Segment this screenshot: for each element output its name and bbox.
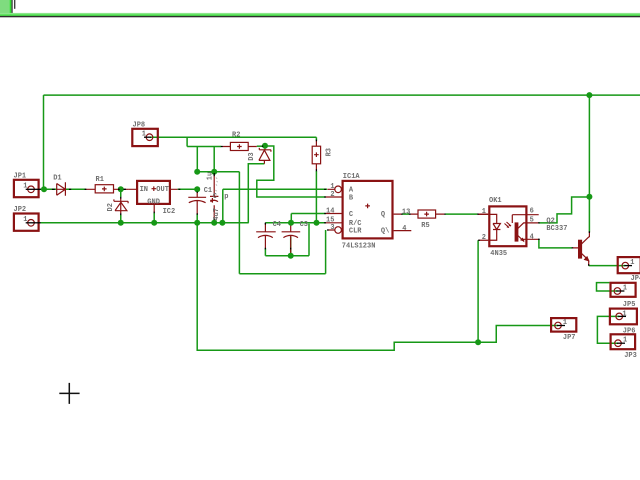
svg-text:R5: R5 [421, 222, 429, 230]
wire long loop to optocoupler side [197, 223, 478, 350]
svg-text:1u: 1u [207, 172, 215, 180]
junction OUT/C2 [194, 186, 200, 192]
svg-text:D3: D3 [248, 152, 256, 160]
OK1 phototransistor [515, 223, 518, 241]
wire C4 bottom rail [265, 224, 309, 256]
svg-text:JP1: JP1 [14, 172, 27, 180]
junction C1 top [211, 169, 217, 175]
junction R3/pin15 [314, 220, 320, 226]
svg-text:13: 13 [402, 209, 410, 217]
junction R1/IN/D2 [118, 186, 124, 192]
smashed text frame dashes [216, 178, 218, 192]
svg-text:4u7: 4u7 [213, 208, 221, 221]
junction collector node [586, 194, 592, 200]
svg-text:IN: IN [140, 186, 148, 194]
wire OK1 pin2 down to junction [477, 240, 479, 342]
capacitor C2 [188, 191, 206, 214]
wire R2 right to D3 node [257, 145, 263, 147]
svg-text:BC337: BC337 [546, 225, 567, 233]
pin line JP3 [617, 342, 625, 344]
svg-text:74LS123N: 74LS123N [342, 242, 376, 250]
svg-text:4: 4 [402, 225, 406, 233]
regulator IC2 box [137, 181, 170, 204]
monostable IC1A box [343, 181, 393, 239]
pin line JP8 [144, 136, 151, 138]
connector JP6 box [610, 309, 637, 325]
connector JP1 box [14, 180, 39, 197]
IC1A pin3 bubble [335, 227, 342, 234]
svg-text:R2: R2 [232, 132, 240, 140]
mouse crosshair [59, 383, 79, 404]
svg-text:C: C [213, 193, 217, 201]
OK1 photo arrows [505, 222, 512, 228]
svg-text:5: 5 [530, 217, 534, 225]
wire Q output to R5 [402, 213, 409, 215]
pin tick C4 top [264, 223, 266, 225]
wire Q2 emitter to JP4 [589, 265, 626, 267]
toolbar separator band [0, 13, 640, 15]
wire R5 to OK1 pin1 [445, 213, 477, 215]
resistor R3 [312, 146, 320, 164]
svg-text:6: 6 [530, 208, 534, 216]
IC1A pin stubs left [326, 189, 343, 230]
JP5 pin ring [614, 288, 621, 295]
pin ticks D2 [120, 197, 122, 215]
JP2 pin ring [28, 220, 35, 227]
wire JP8 branch down to R2 row [187, 137, 221, 146]
svg-text:4N35: 4N35 [490, 250, 507, 258]
wire riser to C2 top [196, 147, 198, 172]
capacitor C1 [210, 174, 218, 220]
IC1A origin cross [365, 204, 370, 209]
pin line JP7 [557, 325, 565, 327]
JP8 pin ring [146, 134, 153, 141]
connector JP3 box [611, 334, 636, 349]
svg-text:1: 1 [623, 284, 627, 292]
connector JP5 box [611, 283, 636, 297]
svg-text:C4: C4 [273, 221, 281, 229]
junction IC2 GND [151, 220, 157, 226]
pin tick D1 right [69, 188, 71, 190]
wire C2/C1 tops cross link [197, 171, 239, 173]
wire JP1 to D1 [40, 188, 57, 190]
diode D1 [57, 182, 66, 196]
junction C3 top/pin14 [288, 220, 294, 226]
pin ticks caps bottom [265, 248, 290, 250]
svg-text:2: 2 [330, 191, 334, 199]
svg-text:JP3: JP3 [624, 352, 637, 360]
svg-text:JP4: JP4 [631, 275, 640, 283]
OK1 pin stubs [478, 214, 538, 240]
pin ticks R5 row [401, 213, 479, 215]
svg-text:JP2: JP2 [14, 206, 27, 214]
wire ground rail from JP2 [41, 222, 249, 224]
pin tick C1 top [213, 173, 215, 176]
connector JP2 box [14, 214, 39, 231]
pin tick C2 top [196, 192, 198, 194]
wire D3 node to pin B riser [257, 146, 326, 197]
svg-text:1: 1 [623, 337, 627, 345]
junction C1 ground [211, 220, 217, 226]
pin tick D1/R1 row [85, 188, 181, 190]
pin ticks C2/C1 bottom [197, 213, 214, 220]
svg-text:C3: C3 [300, 221, 308, 229]
resistor R5 [418, 210, 436, 218]
svg-text:1: 1 [563, 319, 567, 327]
pin ticks IC2 [153, 212, 155, 214]
pin ticks R2 [221, 145, 263, 147]
svg-text:1: 1 [622, 310, 626, 318]
pin ticks IC1A left [324, 189, 329, 230]
svg-text:JP6: JP6 [623, 328, 636, 336]
wire C1 bottom stub [213, 220, 215, 223]
wire D1 to R1 [65, 188, 85, 190]
wire VCC top rail [44, 94, 640, 96]
wire JP6 to JP3 [597, 316, 619, 343]
connector JP7 box [551, 318, 576, 332]
capacitor C4 [256, 223, 276, 249]
JP1 pin ring [28, 186, 35, 193]
pin line JP4 [624, 265, 632, 267]
svg-text:OUT: OUT [156, 186, 169, 194]
svg-text:Q: Q [381, 211, 385, 219]
pin ticks OK1 [478, 223, 540, 240]
zener diode D2 [114, 198, 128, 213]
wire IC2 OUT to C2 node [178, 188, 198, 190]
svg-text:1: 1 [630, 259, 634, 267]
svg-text:1: 1 [142, 131, 146, 139]
connector JP4 box [618, 257, 640, 273]
svg-text:C1: C1 [204, 187, 212, 195]
svg-text:p: p [224, 193, 228, 201]
svg-text:JP5: JP5 [623, 301, 636, 309]
wire junction to JP7 [478, 326, 558, 343]
IC2 pin stubs [129, 189, 178, 212]
wire D3 anode to ground riser [248, 164, 264, 223]
svg-text:14: 14 [326, 207, 334, 215]
pin line JP5 [616, 290, 624, 292]
wire OK1 pin4 to Q2 base [539, 239, 572, 248]
resistor R2 [230, 142, 248, 150]
junction JP1/D1 [41, 186, 47, 192]
wire IC2 GND stub [153, 213, 155, 223]
transistor Q2 BC337 [579, 240, 582, 258]
wire top rail down to collector node [588, 95, 590, 232]
junction C2 ground [194, 220, 200, 226]
pin line JP6 [618, 315, 626, 317]
svg-text:C: C [349, 211, 353, 219]
pin ticks Q2 [572, 231, 590, 265]
wire C2 vertical segments [196, 189, 198, 223]
svg-text:IC2: IC2 [163, 208, 176, 216]
wire C4/C3 tops to pin15 [265, 222, 325, 224]
connector JP8 box [132, 129, 158, 146]
svg-text:1: 1 [482, 208, 486, 216]
wire OK1 pin5 step up to collector node [539, 197, 590, 223]
wire IC1A pin1 to ground riser [223, 189, 327, 223]
pin tick D1 left [52, 188, 55, 190]
pin ticks R3 [315, 140, 317, 172]
svg-text:3: 3 [330, 224, 334, 232]
IC1A pin1 bubble [335, 186, 342, 193]
svg-text:Q\: Q\ [381, 227, 389, 235]
svg-text:OK1: OK1 [489, 197, 502, 205]
svg-text:4: 4 [530, 234, 534, 242]
OK1 internal LED [488, 214, 500, 240]
svg-text:JP7: JP7 [563, 334, 576, 342]
svg-text:JP8: JP8 [133, 121, 146, 129]
wire left vertical from top rail to JP1 node [43, 95, 45, 189]
svg-text:GND: GND [147, 199, 160, 207]
svg-text:D1: D1 [53, 175, 61, 183]
svg-text:1: 1 [23, 216, 27, 224]
JP4 pin ring [622, 262, 629, 269]
IC1A pin stubs right [394, 214, 412, 231]
junction R2/D3 [262, 143, 268, 149]
wire JP5 stub loop [597, 283, 618, 291]
wire CLR loop riser [239, 172, 325, 274]
optocoupler OK1 box [489, 206, 526, 246]
capacitor C3 [282, 223, 301, 256]
svg-text:R3: R3 [326, 148, 334, 156]
junction JP7 node [475, 339, 481, 345]
wire JP8 to R3 top [150, 137, 316, 140]
junction C2 top [194, 169, 200, 175]
junction top rail [586, 92, 592, 98]
svg-text:D2: D2 [107, 203, 115, 211]
junction D2 ground [118, 220, 124, 226]
JP6 pin ring [616, 313, 623, 320]
svg-text:IC1A: IC1A [343, 173, 361, 181]
svg-text:CLR: CLR [349, 227, 362, 235]
zener diode D3 [259, 147, 271, 164]
JP7 pin ring [555, 322, 562, 329]
text cursor in command line [14, 0, 15, 9]
toolbar button remnant top-left [0, 0, 10, 13]
wire R3 bottom to C3 node [315, 171, 317, 223]
svg-text:2: 2 [482, 234, 486, 242]
wire pin14 to C3 top [291, 214, 325, 223]
JP3 pin ring [615, 340, 622, 347]
junction pin1 riser ground [219, 220, 225, 226]
pin line JP1 [26, 188, 41, 190]
wire riser to C1 top [213, 147, 215, 172]
IC2 origin cross [152, 186, 157, 191]
resistor R1 [95, 185, 113, 193]
svg-text:R1: R1 [96, 176, 104, 184]
junction caps bottom [288, 253, 294, 259]
svg-text:1: 1 [23, 183, 27, 191]
pin line JP2 [26, 222, 41, 224]
wire D2 bottom stub [120, 191, 122, 223]
